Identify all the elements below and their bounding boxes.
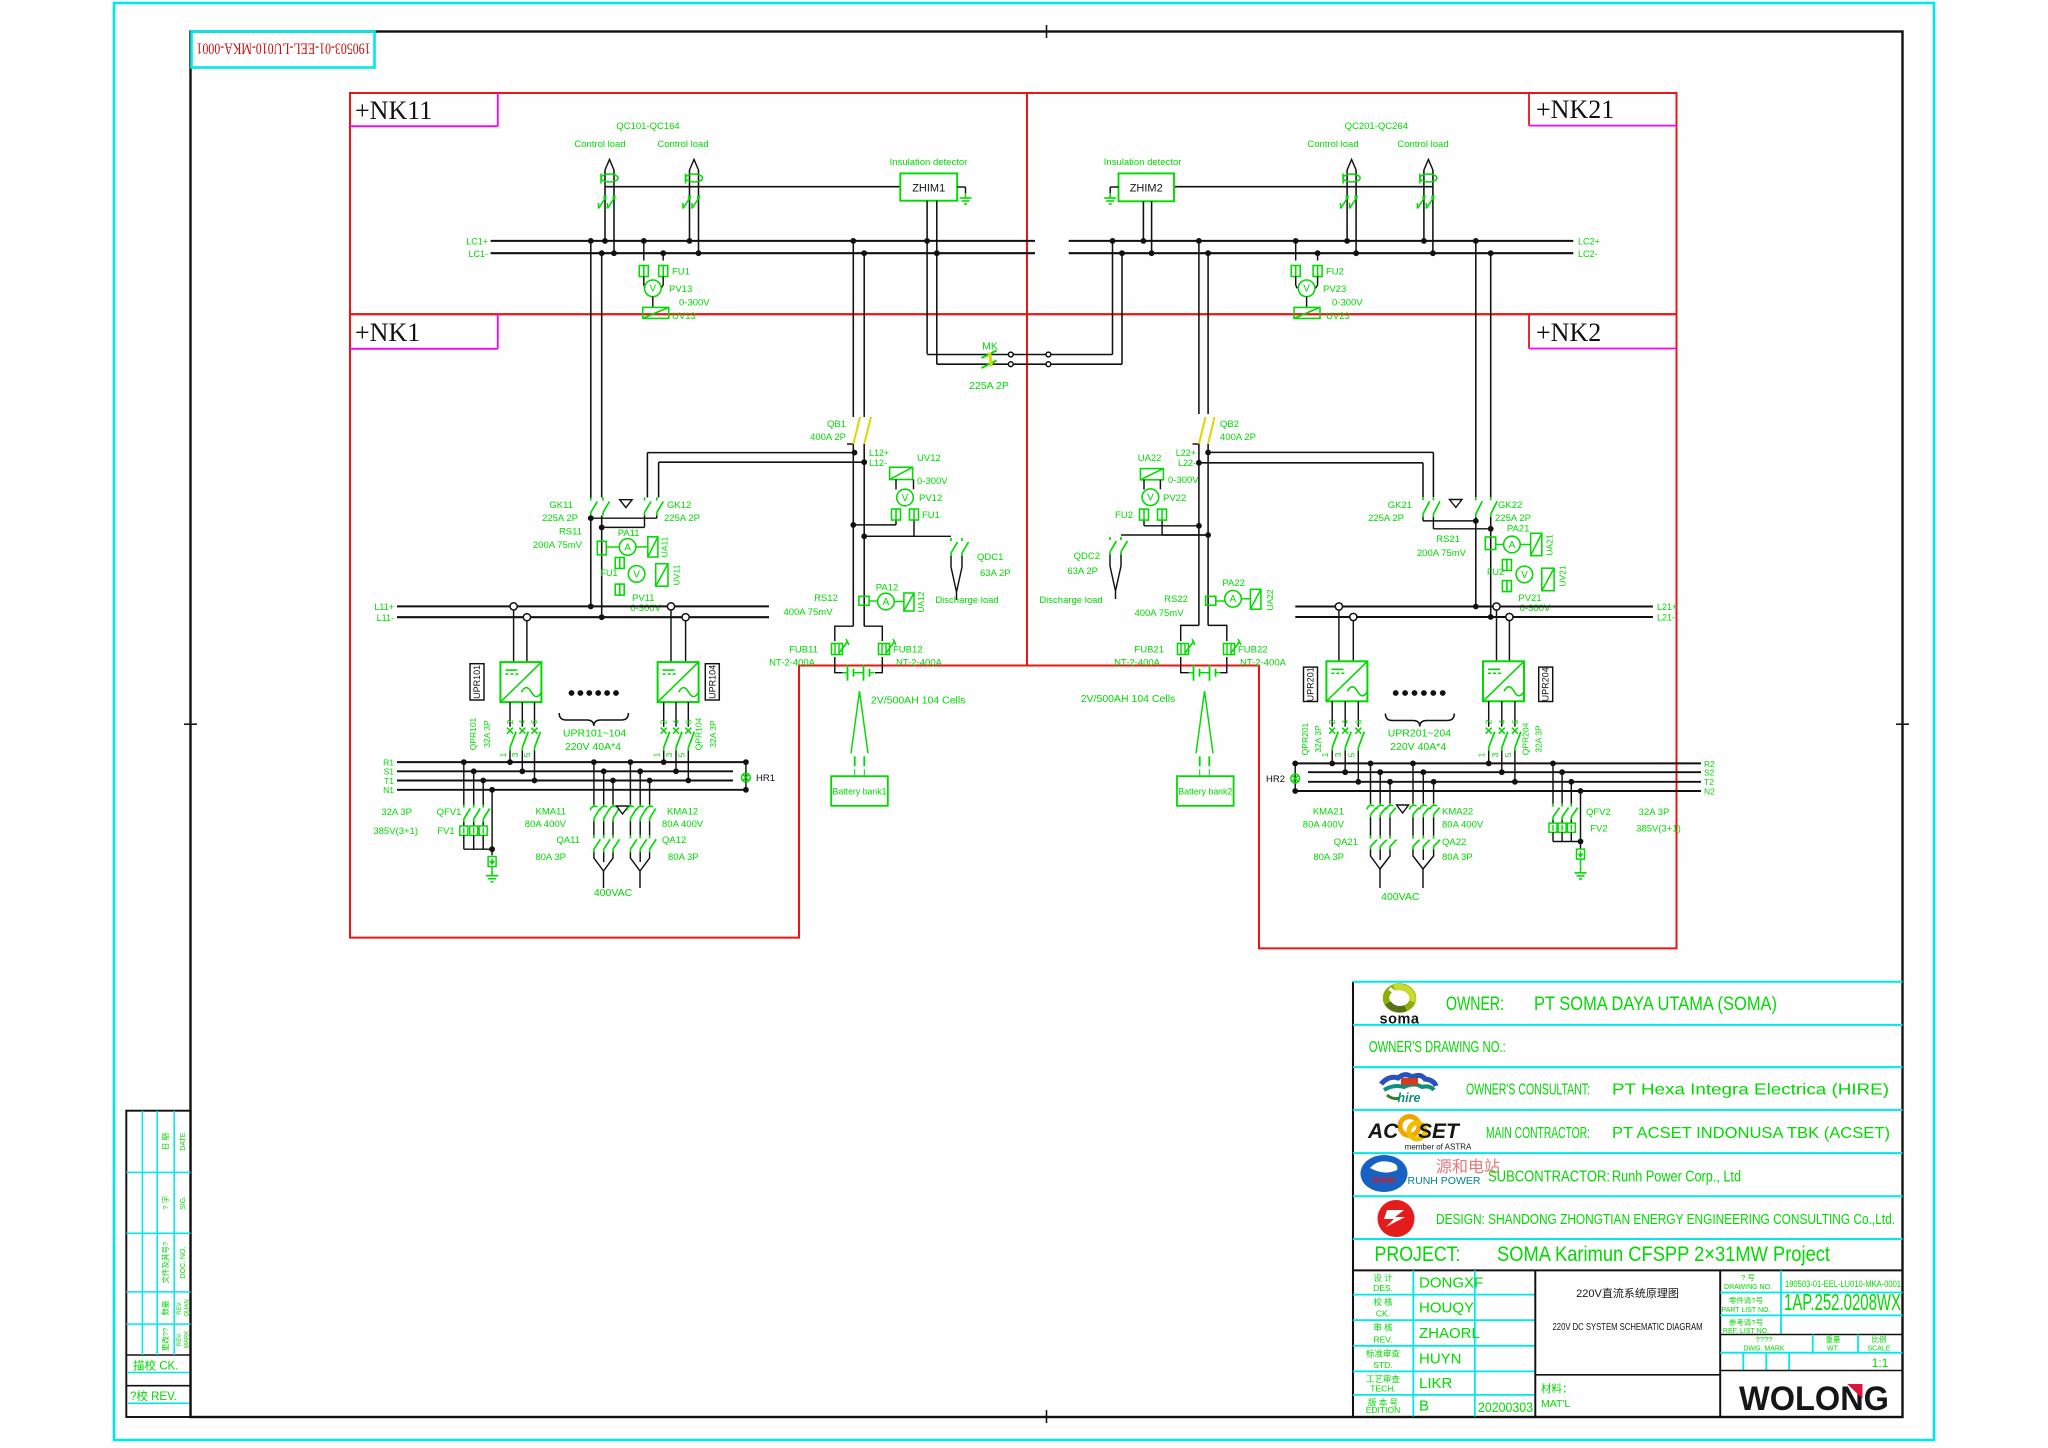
fuses FU2 + voltmeter PV21 + transducer UV21 <box>1502 560 1511 571</box>
svg-text:EDITION: EDITION <box>1366 1405 1400 1415</box>
svg-text:DATE: DATE <box>180 1132 187 1150</box>
bus R2 <box>1295 762 1701 764</box>
wire MK tie to LC2 buses <box>1112 241 1114 355</box>
fuses FU2 (PV22 chain) <box>1140 509 1149 520</box>
svg-text:PV12: PV12 <box>919 493 942 504</box>
svg-text:UA22: UA22 <box>1138 453 1162 464</box>
svg-text:A: A <box>1509 540 1516 551</box>
indicator lamp HR1 <box>745 762 747 790</box>
svg-text:LIKR: LIKR <box>1419 1375 1453 1392</box>
voltmeter branch FU2 PV23 UV23 <box>1295 241 1297 261</box>
ground at ZHIM1 <box>957 186 965 188</box>
svg-text:+NK21: +NK21 <box>1536 95 1614 124</box>
battery bank 1 <box>851 691 860 753</box>
SOMA logo <box>1386 987 1413 1010</box>
svg-text:PV13: PV13 <box>669 284 692 295</box>
svg-text:0-300V: 0-300V <box>1520 603 1551 614</box>
bus LC2+ <box>1069 240 1574 242</box>
svg-text:V: V <box>1521 570 1528 581</box>
marker triangle <box>1450 500 1463 508</box>
breaker QPR104 32A 3P <box>663 702 665 727</box>
svg-text:STD.: STD. <box>1373 1360 1392 1370</box>
breaker QB1 400A 2P <box>852 414 854 417</box>
svg-text:LC2+: LC2+ <box>1578 237 1600 247</box>
svg-text:比例: 比例 <box>1872 1334 1887 1344</box>
svg-text:HOUQY: HOUQY <box>1419 1299 1474 1316</box>
svg-text:hire: hire <box>1398 1091 1421 1105</box>
bus R1 <box>397 761 746 763</box>
svg-text:Control load: Control load <box>1307 139 1358 150</box>
svg-text:REV.: REV. <box>177 1301 183 1315</box>
svg-text:ZHIM2: ZHIM2 <box>1130 183 1163 195</box>
svg-text:L21+: L21+ <box>1657 602 1677 612</box>
intermediate dots (more chargers) <box>1393 690 1399 696</box>
svg-text:FV1: FV1 <box>437 826 454 837</box>
svg-text:QA21: QA21 <box>1334 837 1358 848</box>
svg-text:KMA11: KMA11 <box>536 807 566 818</box>
svg-text:HR1: HR1 <box>756 773 775 784</box>
svg-text:REF. LIST NO.: REF. LIST NO. <box>1723 1328 1769 1335</box>
ACSET logo <box>1400 1117 1419 1136</box>
svg-text:0-300V: 0-300V <box>679 298 710 309</box>
svg-text:V: V <box>649 284 656 295</box>
drawing number cells <box>1780 1270 1782 1334</box>
svg-text:32A 3P: 32A 3P <box>708 720 718 748</box>
svg-text:FUB12: FUB12 <box>893 645 923 656</box>
svg-text:OWNER:: OWNER: <box>1446 994 1504 1015</box>
breaker QDC1 63A 2P + discharge load <box>864 535 951 537</box>
svg-text:1AP.252.0208WX: 1AP.252.0208WX <box>1784 1289 1901 1315</box>
bus LC1- <box>491 252 1035 254</box>
document number box (top-left, rotated) <box>192 32 375 68</box>
svg-text:PART LIST NO.: PART LIST NO. <box>1722 1307 1771 1314</box>
svg-text:QB1: QB1 <box>827 419 846 430</box>
feeder KMA21 / QA21 <box>1370 763 1372 803</box>
svg-text:Control load: Control load <box>657 139 708 150</box>
cabinet +NK21 red outline <box>1027 93 1677 314</box>
wire ZHIM1 to buses and MK tie <box>926 201 928 354</box>
contactor GK11 225A 2P <box>590 498 592 501</box>
svg-text:FU2: FU2 <box>1487 567 1504 577</box>
svg-text:2V/500AH 104 Cells: 2V/500AH 104 Cells <box>871 695 966 707</box>
svg-text:FU2: FU2 <box>1326 267 1344 278</box>
svg-text:5: 5 <box>676 752 686 757</box>
svg-text:1: 1 <box>498 752 508 757</box>
svg-text:重量: 重量 <box>1826 1335 1842 1344</box>
wire QB2 down to battery fuse box <box>1198 463 1200 626</box>
bus L11- <box>397 616 769 618</box>
svg-text:DWG. MARK: DWG. MARK <box>1743 1346 1785 1353</box>
control load feeder QC264 <box>1423 170 1425 241</box>
svg-text:DES.: DES. <box>1373 1283 1393 1293</box>
svg-text:385V(3+1): 385V(3+1) <box>1636 824 1681 835</box>
svg-text:V: V <box>1147 493 1154 504</box>
bus N2 <box>1295 790 1701 792</box>
svg-text:WOLONG: WOLONG <box>1739 1380 1889 1418</box>
svg-text:UPR104: UPR104 <box>707 665 717 699</box>
contactor GK21 225A 2P <box>1422 497 1424 500</box>
svg-text:S2: S2 <box>1704 768 1715 778</box>
cabinet +NK2 red outline (stepped) <box>1027 314 1677 948</box>
svg-text:DOC. NO.: DOC. NO. <box>180 1247 187 1279</box>
wire LC1 buses down to GK11 <box>590 241 592 498</box>
svg-text:PT SOMA DAYA UTAMA (SOMA): PT SOMA DAYA UTAMA (SOMA) <box>1534 994 1777 1015</box>
svg-text:Insulation detector: Insulation detector <box>1104 157 1182 168</box>
ground at ZHIM2 <box>1110 186 1118 188</box>
svg-text:GK22: GK22 <box>1498 500 1522 511</box>
label box +NK2 <box>1528 314 1530 348</box>
battery bank 2 <box>1196 691 1205 753</box>
bus LC1+ (control DC bus positive) <box>491 240 1035 242</box>
breaker QPR201 32A 3P <box>1331 701 1333 726</box>
svg-text:6: 6 <box>683 719 693 724</box>
svg-text:SOMA Karimun CFSPP 2×31MW Proj: SOMA Karimun CFSPP 2×31MW Project <box>1497 1243 1830 1266</box>
charger UPR104 <box>667 603 674 610</box>
svg-text:UA12: UA12 <box>916 591 926 613</box>
svg-text:400VAC: 400VAC <box>594 887 633 899</box>
label box +NK11 <box>497 93 499 126</box>
svg-text:描校 CK.: 描校 CK. <box>133 1359 178 1373</box>
svg-text:32A 3P: 32A 3P <box>1534 725 1544 753</box>
svg-text:2: 2 <box>1484 719 1494 724</box>
svg-text:3: 3 <box>1333 752 1343 757</box>
svg-text:FUB21: FUB21 <box>1134 645 1164 656</box>
svg-text:N2: N2 <box>1704 786 1715 796</box>
svg-text:5: 5 <box>1503 752 1513 757</box>
svg-text:80A 3P: 80A 3P <box>1313 852 1344 863</box>
svg-text:5: 5 <box>1346 752 1356 757</box>
svg-text:RS22: RS22 <box>1164 594 1188 605</box>
svg-text:1:1: 1:1 <box>1872 1356 1889 1370</box>
svg-text:220V直流系统原理图: 220V直流系统原理图 <box>1576 1286 1679 1300</box>
svg-text:QPR204: QPR204 <box>1520 722 1530 755</box>
svg-text:0-300V: 0-300V <box>1332 298 1363 309</box>
svg-text:UV12: UV12 <box>917 453 941 464</box>
incomer QFV2 32A 3P with FV2 arresters <box>1552 763 1554 803</box>
svg-text:更改??: 更改?? <box>160 1328 170 1351</box>
svg-text:Runh Power Corp., Ltd: Runh Power Corp., Ltd <box>1612 1169 1741 1186</box>
svg-text:0-300V: 0-300V <box>1168 475 1199 486</box>
svg-text:L12+: L12+ <box>869 448 889 458</box>
svg-text:0-300V: 0-300V <box>917 476 948 487</box>
svg-text:UPR201~204: UPR201~204 <box>1388 728 1451 740</box>
svg-text:32A 3P: 32A 3P <box>1313 725 1323 753</box>
svg-text:DRAWING NO.: DRAWING NO. <box>1724 1284 1772 1291</box>
svg-text:2: 2 <box>1327 719 1337 724</box>
svg-text:RS21: RS21 <box>1436 534 1460 545</box>
svg-text:V: V <box>902 493 909 504</box>
svg-text:soma: soma <box>1380 1012 1420 1028</box>
svg-text:1: 1 <box>1477 752 1487 757</box>
svg-text:225A 2P: 225A 2P <box>664 513 700 524</box>
charger UPR204 <box>1493 603 1500 610</box>
svg-text:MAT'L: MAT'L <box>1541 1398 1570 1410</box>
indicator lamp HR2 <box>1294 763 1296 791</box>
svg-text:SIG.: SIG. <box>180 1196 187 1210</box>
svg-text:B: B <box>1419 1398 1429 1415</box>
svg-text:校 核: 校 核 <box>1373 1297 1393 1307</box>
svg-text:32A 3P: 32A 3P <box>482 720 492 748</box>
bus T1 <box>397 780 733 782</box>
svg-text:FU2: FU2 <box>1115 510 1133 521</box>
svg-text:220V DC SYSTEM SCHEMATIC DIAGR: 220V DC SYSTEM SCHEMATIC DIAGRAM <box>1553 1321 1703 1333</box>
svg-text:DONGXF: DONGXF <box>1419 1275 1483 1292</box>
cabinet +NK1 red outline (stepped) <box>350 314 1027 937</box>
svg-text:L12-: L12- <box>869 458 887 468</box>
svg-text:工艺审查: 工艺审查 <box>1366 1374 1401 1384</box>
svg-text:A: A <box>883 597 890 608</box>
svg-text:NT-2-400A: NT-2-400A <box>896 658 943 669</box>
svg-text:NT-2-400A: NT-2-400A <box>1240 658 1287 669</box>
svg-text:63A 2P: 63A 2P <box>1067 566 1098 577</box>
svg-text:Discharge load: Discharge load <box>1039 595 1102 606</box>
branch to UV12 voltmeter chain <box>853 524 896 526</box>
svg-text:UPR101: UPR101 <box>472 665 482 699</box>
svg-text:4: 4 <box>1340 719 1350 724</box>
feeder KMA11 / QA11 <box>593 762 595 804</box>
svg-text:QA12: QA12 <box>662 835 686 846</box>
wire L22+ / L22- <box>1208 451 1433 453</box>
bus L11+ <box>397 605 769 607</box>
svg-text:4: 4 <box>1497 719 1507 724</box>
bus L21+ <box>1295 605 1653 607</box>
svg-text:220V 40A*4: 220V 40A*4 <box>565 741 621 753</box>
svg-text:6: 6 <box>529 719 539 724</box>
svg-text:V: V <box>1303 284 1310 295</box>
svg-text:MK: MK <box>982 341 998 353</box>
marker triangle <box>617 806 629 814</box>
svg-text:HR2: HR2 <box>1266 774 1285 785</box>
svg-text:UA21: UA21 <box>1545 534 1555 556</box>
svg-text:FV2: FV2 <box>1590 824 1607 835</box>
control load feeder QC201 <box>1346 170 1348 241</box>
svg-text:80A 400V: 80A 400V <box>662 819 704 830</box>
tie switch MK 225A 2P <box>927 354 1112 356</box>
marker triangle <box>620 500 632 508</box>
wire control loads to ZHIM2 <box>1174 186 1433 188</box>
svg-text:CK.: CK. <box>1376 1309 1390 1319</box>
marker triangle <box>1397 805 1409 813</box>
svg-text:SUBCONTRACTOR:: SUBCONTRACTOR: <box>1488 1169 1610 1186</box>
svg-text:200A 75mV: 200A 75mV <box>533 540 583 551</box>
svg-text:member of ASTRA: member of ASTRA <box>1405 1143 1472 1152</box>
svg-text:L22+: L22+ <box>1176 448 1196 458</box>
svg-text:3: 3 <box>1490 752 1500 757</box>
svg-text:V: V <box>633 569 640 580</box>
svg-text:80A 400V: 80A 400V <box>1303 820 1345 831</box>
svg-text:QDC2: QDC2 <box>1074 551 1100 562</box>
svg-text:N1: N1 <box>383 785 394 795</box>
svg-text:4: 4 <box>517 719 527 724</box>
svg-text:UV23: UV23 <box>1326 311 1350 322</box>
signature table <box>1353 1294 1535 1296</box>
svg-text:SET: SET <box>1418 1120 1461 1143</box>
svg-text:LC2-: LC2- <box>1578 249 1598 259</box>
bus L21- <box>1295 616 1653 618</box>
svg-text:? 字: ? 字 <box>160 1196 170 1210</box>
svg-text:UV13: UV13 <box>672 311 696 322</box>
wire GK21/GK22 common <box>1475 517 1477 606</box>
svg-text:63A 2P: 63A 2P <box>980 568 1011 579</box>
svg-text:KMA21: KMA21 <box>1313 807 1344 818</box>
svg-text:QA11: QA11 <box>556 835 580 846</box>
bus T2 <box>1308 781 1701 783</box>
svg-text:NT-2-400A: NT-2-400A <box>1114 658 1161 669</box>
svg-text:LC1+: LC1+ <box>466 237 488 247</box>
svg-text:32A 3P: 32A 3P <box>381 807 412 818</box>
svg-text:????: ???? <box>1756 1335 1773 1344</box>
svg-text:PA11: PA11 <box>618 528 640 539</box>
DESIGN logo (red Z) <box>1378 1200 1415 1237</box>
svg-text:GK11: GK11 <box>549 500 573 511</box>
svg-text:QFV2: QFV2 <box>1586 807 1611 818</box>
svg-text:UV21: UV21 <box>1558 565 1568 587</box>
fuses FU1 (PV12 chain) <box>892 509 901 520</box>
svg-text:KMA22: KMA22 <box>1442 807 1473 818</box>
control load feeder QC164 <box>689 170 691 241</box>
svg-text:MARK: MARK <box>185 1331 191 1348</box>
charger UPR101 <box>510 603 517 610</box>
svg-text:6: 6 <box>1510 719 1520 724</box>
svg-text:400A 2P: 400A 2P <box>1220 432 1256 443</box>
bus LC2- <box>1069 252 1574 254</box>
svg-text:PA21: PA21 <box>1507 524 1530 535</box>
svg-text:L11+: L11+ <box>374 602 394 612</box>
svg-text:LC1-: LC1- <box>468 249 488 259</box>
svg-text:20200303: 20200303 <box>1478 1399 1533 1415</box>
svg-text:3: 3 <box>664 752 674 757</box>
svg-text:4: 4 <box>671 719 681 724</box>
svg-text:QFV1: QFV1 <box>437 807 462 818</box>
breaker QB2 400A 2P <box>1193 443 1199 445</box>
svg-text:225A 2P: 225A 2P <box>1368 513 1404 524</box>
svg-text:材料：: 材料： <box>1541 1382 1573 1395</box>
svg-text:PT Hexa Integra Electrica (HIR: PT Hexa Integra Electrica (HIRE) <box>1612 1082 1889 1099</box>
svg-text:QA22: QA22 <box>1442 837 1466 848</box>
svg-text:FUB11: FUB11 <box>789 645 818 656</box>
svg-text:QPR101: QPR101 <box>468 717 478 750</box>
svg-text:190503-01-EEL-LU010-MKA-0001: 190503-01-EEL-LU010-MKA-0001 <box>197 40 371 57</box>
svg-text:Battery bank1: Battery bank1 <box>833 787 887 798</box>
branch to UV22 voltmeter chain <box>1144 525 1199 527</box>
svg-text:32A 3P: 32A 3P <box>1639 807 1670 818</box>
svg-text:UA22: UA22 <box>1265 589 1275 611</box>
svg-text:L22-: L22- <box>1178 458 1196 468</box>
label box +NK21 <box>1528 93 1530 126</box>
svg-text:OWNER'S DRAWING NO.:: OWNER'S DRAWING NO.: <box>1369 1039 1506 1056</box>
svg-text:400VAC: 400VAC <box>1381 891 1420 903</box>
breaker QPR101 32A 3P <box>509 702 511 727</box>
svg-text:+NK2: +NK2 <box>1536 318 1601 347</box>
svg-text:FU1: FU1 <box>600 568 617 578</box>
svg-text:400A 75mV: 400A 75mV <box>783 607 833 618</box>
svg-text:PT ACSET INDONUSA TBK (ACSET): PT ACSET INDONUSA TBK (ACSET) <box>1612 1125 1890 1142</box>
svg-text:225A 2P: 225A 2P <box>969 380 1009 392</box>
svg-text:80A 3P: 80A 3P <box>1442 852 1473 863</box>
svg-text:+NK11: +NK11 <box>355 96 432 125</box>
svg-text:设 计: 设 计 <box>1373 1273 1393 1283</box>
svg-text:REV.: REV. <box>1373 1334 1392 1344</box>
fuses FU1 + voltmeter PV11 + transducer UV11 <box>615 558 624 569</box>
svg-text:L21-: L21- <box>1657 613 1675 623</box>
svg-text:220V 40A*4: 220V 40A*4 <box>1390 741 1446 753</box>
svg-text:参考清?号: 参考清?号 <box>1729 1317 1763 1327</box>
svg-text:PV22: PV22 <box>1163 493 1186 504</box>
svg-text:2: 2 <box>505 719 515 724</box>
svg-text:RUNH: RUNH <box>1372 1176 1395 1185</box>
svg-text:2V/500AH 104 Cells: 2V/500AH 104 Cells <box>1081 693 1176 705</box>
svg-text:Discharge load: Discharge load <box>935 595 998 606</box>
feeder KMA12 / QA12 <box>629 762 631 804</box>
svg-text:NT-2-400A: NT-2-400A <box>769 658 816 669</box>
wire L12+ / L12- <box>647 452 854 454</box>
wire LC1 buses down to QB1 <box>852 241 854 414</box>
svg-text:3: 3 <box>510 752 520 757</box>
frame centering ticks <box>1046 25 1048 38</box>
wire LC2 buses down to GK22 <box>1475 241 1477 497</box>
battery fuse box FUB11/FUB12 NT-2-400A <box>835 626 854 641</box>
svg-text:80A 3P: 80A 3P <box>535 852 566 863</box>
svg-text:ZHIM1: ZHIM1 <box>912 183 945 195</box>
svg-text:RUNH POWER: RUNH POWER <box>1408 1175 1481 1187</box>
svg-text:Battery bank2: Battery bank2 <box>1178 787 1232 798</box>
svg-text:QPR104: QPR104 <box>694 717 704 750</box>
svg-text:UPR101~104: UPR101~104 <box>563 728 626 740</box>
svg-text:Insulation detector: Insulation detector <box>890 157 968 168</box>
label UPR201~204 <box>1385 714 1454 727</box>
cabinet +NK11 red outline <box>350 93 1027 314</box>
contactor GK12 225A 2P <box>644 498 646 501</box>
control load feeder QC101 <box>604 170 606 241</box>
svg-text:QUAN: QUAN <box>185 1299 191 1316</box>
svg-text:HUYN: HUYN <box>1419 1351 1462 1368</box>
svg-text:A: A <box>1230 594 1237 605</box>
charger UPR201 <box>1335 603 1342 610</box>
svg-text:L11-: L11- <box>377 613 394 623</box>
svg-text:Control load: Control load <box>1397 139 1448 150</box>
svg-text:80A 400V: 80A 400V <box>1442 820 1484 831</box>
svg-text:6: 6 <box>1353 719 1363 724</box>
wire control loads to ZHIM1 <box>605 186 900 188</box>
svg-text:80A 400V: 80A 400V <box>525 819 567 830</box>
bus S2 <box>1308 771 1701 773</box>
HIRE logo <box>1381 1075 1436 1086</box>
svg-text:5: 5 <box>522 752 532 757</box>
svg-text:DESIGN: SHANDONG ZHONGTIAN ENE: DESIGN: SHANDONG ZHONGTIAN ENERGY ENGINE… <box>1436 1211 1895 1228</box>
contactor GK22 225A 2P <box>1475 497 1477 500</box>
svg-text:385V(3+1): 385V(3+1) <box>373 826 418 837</box>
wire GK11/GK12 common <box>590 516 592 607</box>
breaker QDC2 63A 2P + discharge load <box>1121 534 1208 536</box>
svg-text:GK12: GK12 <box>667 500 691 511</box>
weight / scale cells <box>1812 1335 1814 1353</box>
svg-text:80A 3P: 80A 3P <box>668 852 699 863</box>
svg-text:?校 REV.: ?校 REV. <box>130 1389 177 1403</box>
breaker QPR204 32A 3P <box>1488 701 1490 726</box>
bus N1 <box>397 789 746 791</box>
svg-text:AC: AC <box>1367 1120 1399 1143</box>
svg-text:? 号: ? 号 <box>1741 1273 1755 1282</box>
title block frame <box>1352 982 1354 1417</box>
bus S1 <box>397 770 733 772</box>
svg-text:SCALE: SCALE <box>1868 1346 1891 1353</box>
svg-text:标准审查: 标准审查 <box>1366 1348 1401 1358</box>
svg-text:日 期: 日 期 <box>161 1133 170 1150</box>
label UPR101~104 <box>559 713 628 726</box>
svg-text:PV23: PV23 <box>1323 284 1346 295</box>
svg-text:2: 2 <box>659 719 669 724</box>
svg-text:ZHAORL: ZHAORL <box>1419 1325 1480 1342</box>
